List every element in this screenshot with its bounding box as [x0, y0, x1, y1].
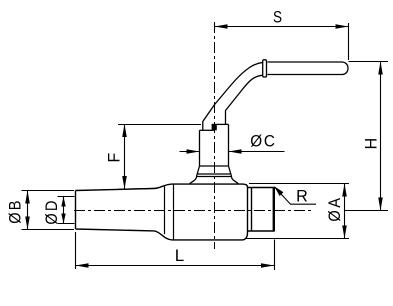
- svg-text:F: F: [104, 153, 123, 163]
- svg-text:S: S: [273, 8, 282, 27]
- svg-text:H: H: [361, 138, 380, 150]
- svg-text:ØC: ØC: [250, 132, 277, 151]
- svg-text:ØD: ØD: [43, 198, 61, 224]
- handle grip tube: [268, 62, 349, 75]
- svg-text:ØB: ØB: [7, 198, 25, 223]
- weld seam line left 1: [164, 186, 166, 234]
- right weld nipple: [248, 188, 275, 232]
- svg-text:ØA: ØA: [326, 195, 344, 221]
- dimension C arrows: [180, 151, 285, 153]
- arrow B bottom: [25, 217, 30, 230]
- arrow D top: [61, 197, 65, 207]
- arrow A top: [342, 184, 347, 197]
- svg-text:L: L: [175, 246, 184, 265]
- leader R: [275, 187, 317, 204]
- stem flare (neck base): [190, 174, 239, 184]
- handle arm: [203, 62, 263, 130]
- dimension F: [118, 124, 201, 189]
- arrow R: [274, 186, 283, 196]
- arrow S right: [336, 24, 349, 29]
- arrow L right: [261, 263, 274, 268]
- stem taper section: [197, 166, 232, 177]
- arrow D bottom: [61, 214, 65, 224]
- arrow C right: [229, 149, 242, 154]
- dimension A: [245, 184, 349, 239]
- gland cylinder: [200, 124, 229, 166]
- arrow F top: [122, 124, 127, 137]
- arrow L left: [76, 263, 89, 268]
- arrow H top: [378, 62, 383, 75]
- svg-text:R: R: [296, 186, 308, 205]
- dimension B: [22, 191, 75, 230]
- dimension L: [76, 232, 275, 270]
- vertical centerline (stem axis): [214, 22, 216, 249]
- arrow B top: [25, 191, 30, 204]
- nipple weld face (thick edge): [273, 187, 275, 231]
- stem nut (black): [212, 124, 217, 131]
- dimension S: [215, 23, 349, 61]
- dimension H: [345, 62, 389, 211]
- arrow H bottom: [378, 198, 383, 211]
- valve body outline: [76, 184, 248, 240]
- arrow F bottom: [122, 176, 127, 189]
- weld seam line left 2: [173, 184, 175, 239]
- arrow A bottom: [342, 226, 347, 239]
- dimension D: [58, 197, 75, 224]
- arrow S left: [215, 24, 228, 29]
- arrow C left: [187, 149, 200, 154]
- horizontal centerline (bore axis): [74, 210, 311, 212]
- handle ferrule (collar): [263, 60, 267, 77]
